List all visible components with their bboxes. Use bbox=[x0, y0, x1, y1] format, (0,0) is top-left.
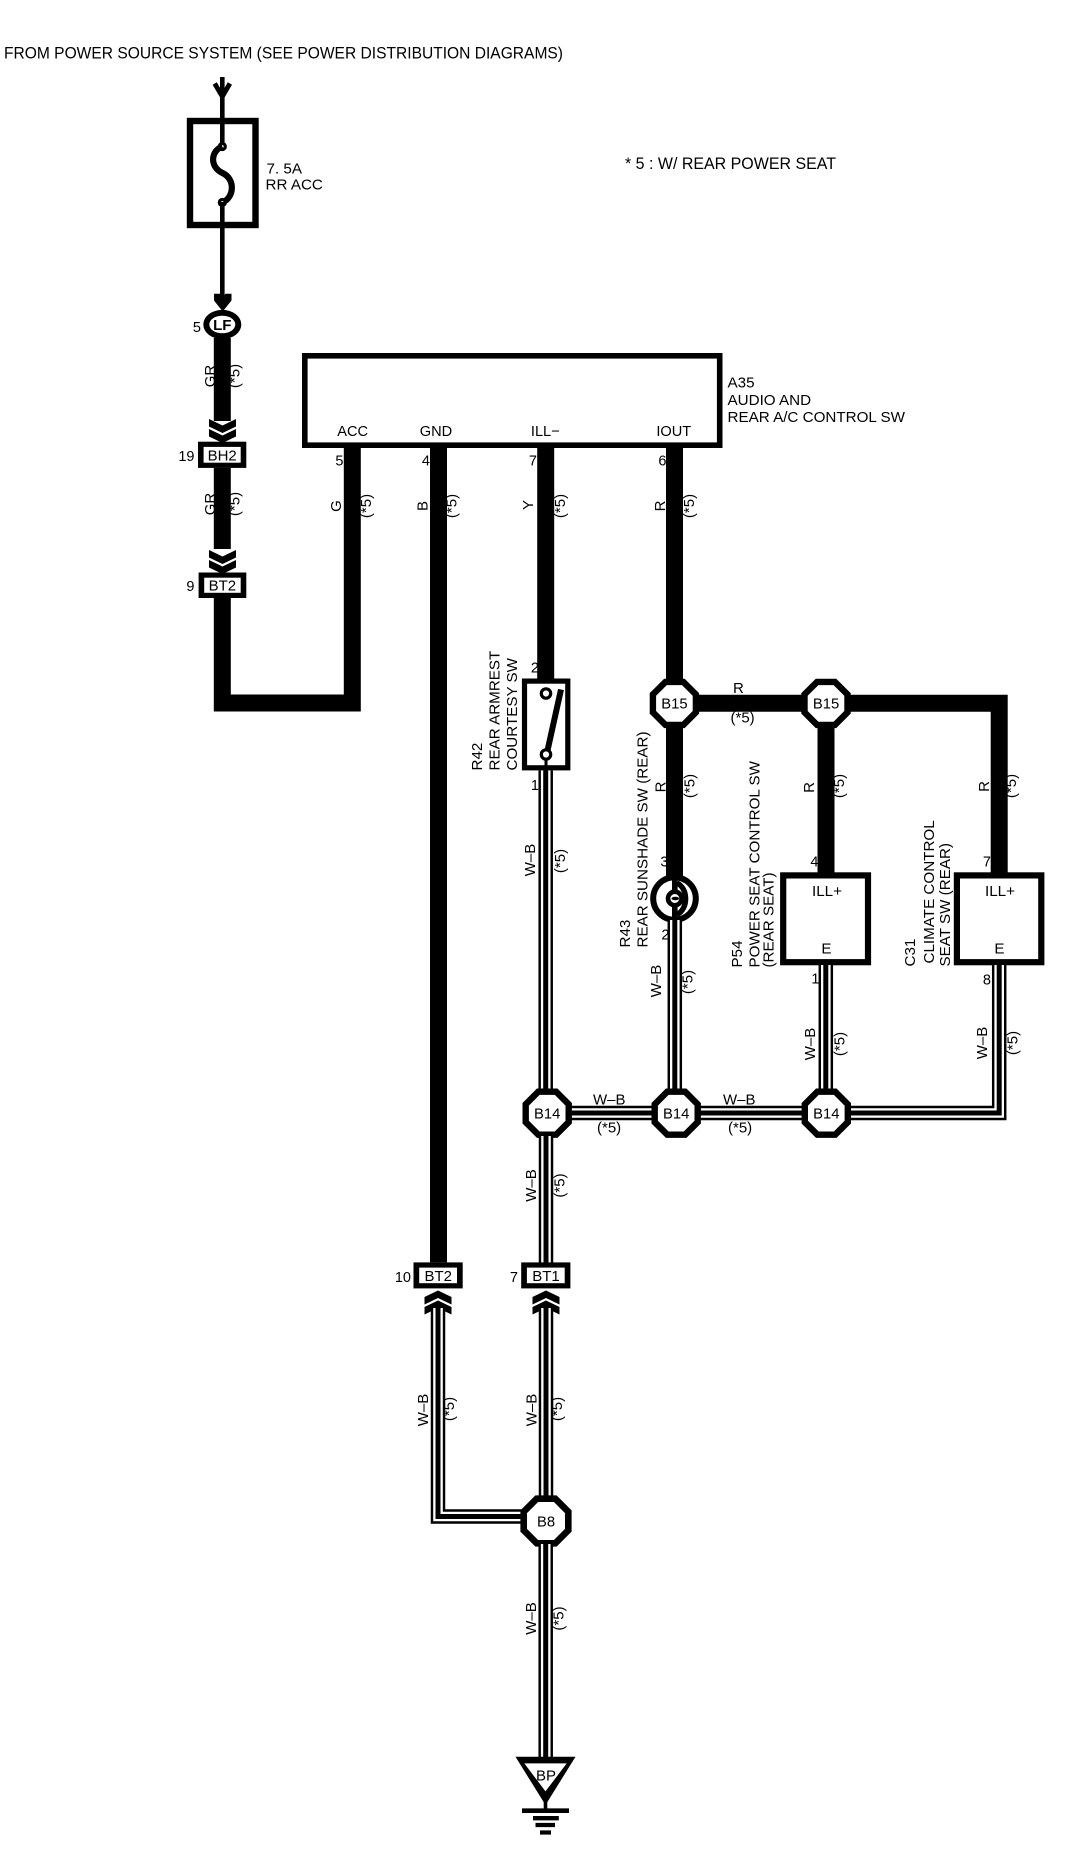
junction B14 third bbox=[802, 1089, 851, 1138]
svg-text:(*5): (*5) bbox=[444, 494, 461, 518]
svg-text:ACC: ACC bbox=[337, 424, 368, 440]
svg-text:ILL+: ILL+ bbox=[812, 883, 842, 900]
svg-text:C31: C31 bbox=[902, 939, 919, 967]
svg-text:W–B: W–B bbox=[802, 1028, 819, 1061]
wire R B15 to corner down to C31 bbox=[848, 703, 999, 873]
svg-text:(*5): (*5) bbox=[358, 494, 375, 518]
wire W-B BT2 elbow to B8 bbox=[438, 1308, 522, 1517]
svg-text:(*5): (*5) bbox=[227, 364, 244, 388]
svg-text:(*5): (*5) bbox=[549, 1397, 566, 1421]
switch R42 rear armrest courtesy sw bbox=[525, 681, 568, 772]
wire Y ILL- pin down to R42 bbox=[537, 446, 554, 679]
svg-text:(*5): (*5) bbox=[552, 849, 569, 873]
switch R43 rear sunshade sw bbox=[653, 877, 696, 920]
wire W-B P54 to B14 bbox=[819, 965, 834, 1090]
svg-text:W–B: W–B bbox=[522, 844, 539, 877]
svg-text:B15: B15 bbox=[813, 697, 839, 713]
svg-text:B8: B8 bbox=[537, 1514, 555, 1530]
wire W-B B14 to B14 second segment bbox=[699, 1106, 804, 1121]
svg-text:W–B: W–B bbox=[415, 1394, 432, 1427]
svg-text:AUDIO AND: AUDIO AND bbox=[728, 392, 812, 409]
svg-text:3: 3 bbox=[660, 855, 668, 871]
svg-text:REAR SUNSHADE SW (REAR): REAR SUNSHADE SW (REAR) bbox=[635, 731, 652, 947]
svg-text:E: E bbox=[994, 941, 1004, 958]
wire W-B BT1 down to B8 bbox=[539, 1308, 554, 1500]
svg-text:GR: GR bbox=[202, 365, 219, 388]
svg-text:A35: A35 bbox=[728, 375, 755, 392]
svg-text:6: 6 bbox=[658, 454, 666, 470]
label R43 rear sunshade sw (rear) bbox=[617, 731, 652, 947]
svg-text:2: 2 bbox=[531, 661, 539, 677]
wire W-B R43 to B14 bbox=[668, 920, 683, 1090]
svg-text:R42: R42 bbox=[469, 743, 486, 771]
svg-text:5: 5 bbox=[335, 454, 343, 470]
svg-text:(*5): (*5) bbox=[728, 1120, 752, 1137]
svg-text:(*5): (*5) bbox=[1003, 774, 1020, 798]
svg-text:B14: B14 bbox=[534, 1107, 560, 1123]
wire R IOUT pin down to B15 bbox=[666, 446, 683, 680]
switch P54 power seat control sw (rear seat) ILL+ box bbox=[783, 875, 868, 962]
svg-text:BP: BP bbox=[536, 1768, 556, 1785]
svg-text:5: 5 bbox=[193, 320, 201, 336]
svg-text:IOUT: IOUT bbox=[656, 424, 691, 440]
svg-text:BT1: BT1 bbox=[532, 1268, 560, 1285]
svg-text:SEAT SW (REAR): SEAT SW (REAR) bbox=[937, 843, 954, 966]
svg-text:R: R bbox=[652, 500, 669, 511]
svg-text:B14: B14 bbox=[813, 1107, 839, 1123]
svg-text:(*5): (*5) bbox=[551, 1606, 568, 1630]
junction B15 second bbox=[801, 679, 850, 728]
svg-text:W–B: W–B bbox=[523, 1602, 540, 1635]
double chevron arrow up below BT1 bbox=[533, 1291, 560, 1315]
svg-text:7: 7 bbox=[529, 454, 537, 470]
wire W-B C31 down corner to B14 bbox=[850, 965, 999, 1113]
wire W-B R42 to B14 bbox=[538, 771, 553, 1091]
svg-text:(*5): (*5) bbox=[552, 494, 569, 518]
svg-text:9: 9 bbox=[186, 579, 194, 595]
svg-text:P54: P54 bbox=[729, 940, 746, 967]
svg-text:(*5): (*5) bbox=[441, 1397, 458, 1421]
junction B14 first bbox=[523, 1089, 572, 1138]
svg-text:7: 7 bbox=[983, 855, 991, 871]
svg-text:W–B: W–B bbox=[593, 1092, 626, 1109]
fuse element bbox=[218, 142, 227, 151]
label R42 rear armrest courtesy sw bbox=[469, 651, 521, 771]
svg-text:(*5): (*5) bbox=[227, 492, 244, 516]
connector 10 BT2 bbox=[395, 1262, 463, 1288]
A35 audio and rear a/c control sw box bbox=[305, 356, 906, 445]
svg-text:(*5): (*5) bbox=[552, 1173, 569, 1197]
svg-text:B14: B14 bbox=[663, 1107, 689, 1123]
svg-text:10: 10 bbox=[395, 1270, 411, 1286]
svg-text:8: 8 bbox=[983, 973, 991, 989]
svg-text:(*5): (*5) bbox=[731, 710, 755, 727]
junction B8 bbox=[520, 1495, 571, 1546]
svg-text:CLIMATE CONTROL: CLIMATE CONTROL bbox=[921, 820, 938, 963]
wire R B15 down to P54 bbox=[818, 726, 835, 873]
svg-text:1: 1 bbox=[811, 972, 819, 988]
wire GR BH2 to BT2 bbox=[214, 468, 231, 549]
connector 5 LF bbox=[193, 310, 241, 339]
svg-text:W–B: W–B bbox=[524, 1394, 541, 1427]
svg-text:7. 5A: 7. 5A bbox=[267, 161, 303, 178]
arrow from power source bbox=[215, 77, 230, 97]
double chevron arrow into BT2 bbox=[209, 550, 236, 574]
svg-text:(*5): (*5) bbox=[597, 1120, 621, 1137]
svg-text:ILL−: ILL− bbox=[531, 424, 560, 440]
ground BP bbox=[516, 1757, 576, 1833]
svg-text:W–B: W–B bbox=[523, 1169, 540, 1202]
switch C31 climate control seat sw (rear) ILL+ box bbox=[957, 875, 1041, 962]
junction B14 second bbox=[652, 1089, 701, 1138]
junction B15 first bbox=[650, 679, 699, 728]
wire W-B B14 down to BT1 bbox=[539, 1136, 554, 1263]
svg-text:(*5): (*5) bbox=[832, 1032, 849, 1056]
svg-text:G: G bbox=[328, 500, 345, 512]
svg-text:* 5 : W/ REAR POWER SEAT: * 5 : W/ REAR POWER SEAT bbox=[625, 154, 836, 173]
svg-text:19: 19 bbox=[178, 449, 194, 465]
svg-text:REAR ARMREST: REAR ARMREST bbox=[487, 651, 504, 771]
svg-text:BT2: BT2 bbox=[209, 578, 237, 595]
svg-text:(*5): (*5) bbox=[681, 494, 698, 518]
svg-text:B: B bbox=[415, 501, 432, 511]
wire GR LF to BH2 bbox=[214, 338, 231, 421]
double chevron arrow into BH2 bbox=[209, 419, 236, 443]
svg-text:Y: Y bbox=[520, 500, 537, 510]
wire W-B B14 to B14 first segment bbox=[570, 1106, 653, 1121]
svg-text:R43: R43 bbox=[617, 920, 634, 948]
wire R B15 down to R43 bbox=[666, 726, 683, 876]
wire R between B15 junctions bbox=[697, 695, 803, 712]
svg-text:REAR A/C CONTROL SW: REAR A/C CONTROL SW bbox=[728, 409, 906, 426]
arrowhead into LF bbox=[214, 294, 232, 312]
wire W-B B8 down to BP ground bbox=[538, 1544, 553, 1758]
svg-text:E: E bbox=[821, 941, 831, 958]
svg-text:4: 4 bbox=[422, 454, 430, 470]
svg-text:B15: B15 bbox=[661, 697, 687, 713]
svg-text:(*5): (*5) bbox=[1005, 1031, 1022, 1055]
svg-text:W–B: W–B bbox=[974, 1027, 991, 1060]
svg-text:GND: GND bbox=[420, 424, 452, 440]
svg-text:7: 7 bbox=[510, 1270, 518, 1286]
svg-text:(*5): (*5) bbox=[680, 970, 697, 994]
svg-text:4: 4 bbox=[810, 855, 818, 871]
svg-text:LF: LF bbox=[213, 317, 231, 334]
svg-text:BH2: BH2 bbox=[208, 447, 237, 464]
svg-text:R: R bbox=[653, 781, 670, 792]
svg-text:R: R bbox=[801, 782, 818, 793]
svg-text:R: R bbox=[733, 680, 744, 697]
connector 9 BT2 bbox=[186, 573, 246, 599]
svg-text:COURTESY SW: COURTESY SW bbox=[504, 657, 521, 770]
svg-text:ILL+: ILL+ bbox=[985, 883, 1015, 900]
wire B GND pin down to BT2 bbox=[430, 446, 447, 1262]
svg-text:(REAR SEAT): (REAR SEAT) bbox=[761, 872, 778, 967]
svg-text:RR ACC: RR ACC bbox=[266, 177, 323, 194]
svg-text:GR: GR bbox=[202, 493, 219, 516]
wire power feed into fuse bbox=[220, 95, 225, 147]
svg-text:FROM POWER SOURCE SYSTEM (SEE: FROM POWER SOURCE SYSTEM (SEE POWER DIST… bbox=[4, 44, 563, 63]
fuse 7.5A RR ACC box bbox=[190, 121, 256, 225]
svg-text:1: 1 bbox=[531, 778, 539, 794]
svg-text:(*5): (*5) bbox=[831, 774, 848, 798]
svg-text:(*5): (*5) bbox=[682, 774, 699, 798]
svg-text:R: R bbox=[976, 781, 993, 792]
svg-text:W–B: W–B bbox=[723, 1092, 756, 1109]
wire BT2 elbow up to ACC pin bbox=[222, 446, 352, 703]
svg-text:BT2: BT2 bbox=[424, 1268, 452, 1285]
connector 7 BT1 bbox=[510, 1262, 570, 1288]
connector 19 BH2 bbox=[178, 442, 246, 468]
label C31 climate control seat sw (rear) bbox=[902, 820, 954, 966]
label P54 power seat control sw (rear seat) bbox=[729, 760, 778, 967]
double chevron arrow up below BT2 bbox=[425, 1291, 452, 1315]
wire fuse to LF bbox=[220, 225, 225, 298]
svg-text:W–B: W–B bbox=[648, 965, 665, 998]
